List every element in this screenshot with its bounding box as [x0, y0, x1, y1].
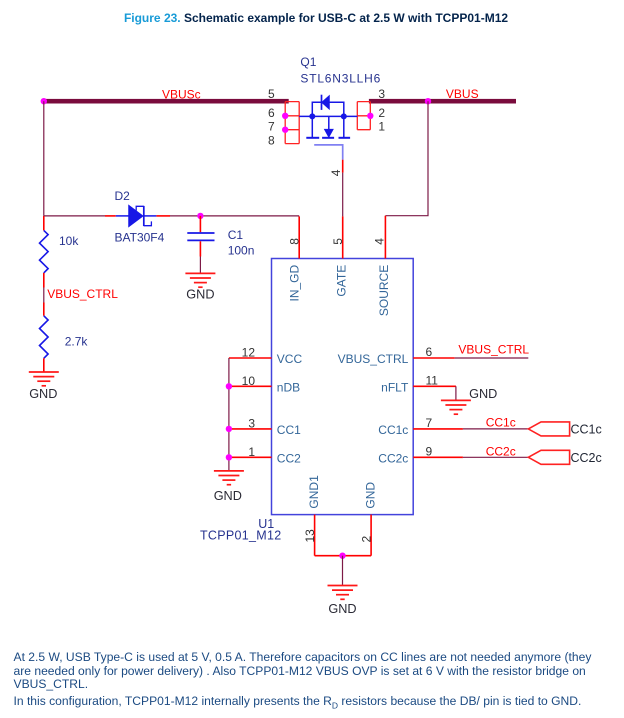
U1 pin 9 stub (CC2c)	[413, 456, 463, 458]
node Q1 pin7	[282, 127, 288, 133]
svg-text:CC2c: CC2c	[571, 451, 602, 465]
wire C1 to GND	[199, 257, 201, 273]
node nDB junction	[226, 383, 232, 389]
svg-text:100n: 100n	[228, 244, 255, 258]
svg-text:STL6N3LLH6: STL6N3LLH6	[300, 72, 381, 86]
wire VBUSc to D2 row	[43, 101, 45, 216]
svg-text:GND1: GND1	[307, 475, 321, 509]
wire VBUS_CTRL right	[455, 357, 529, 359]
Q1 gate pin stub	[342, 160, 344, 173]
svg-text:GATE: GATE	[334, 265, 348, 297]
transistor Q1 MOSFET symbol	[299, 95, 357, 138]
wire GND drop	[342, 556, 344, 585]
node CC2 junction	[226, 454, 232, 460]
svg-text:8: 8	[268, 134, 275, 148]
node GND junction	[339, 553, 345, 559]
Q1 source junction dot	[341, 113, 347, 119]
svg-text:VBUS_CTRL: VBUS_CTRL	[338, 352, 409, 366]
diode D2	[116, 206, 157, 226]
svg-text:GND: GND	[214, 489, 242, 503]
node C1 junction	[197, 213, 203, 219]
svg-text:12: 12	[242, 346, 256, 360]
node VBUS junction	[425, 98, 431, 104]
svg-text:CC1c: CC1c	[378, 423, 408, 437]
U1 pin 11 stub (nFLT)	[413, 385, 456, 387]
Q1 drain junction dot	[309, 113, 315, 119]
node CC1 junction	[226, 426, 232, 432]
wire D2 row right	[170, 215, 299, 217]
svg-text:7: 7	[426, 416, 433, 430]
wire D2 cathode stub	[156, 215, 170, 217]
svg-text:CC2c: CC2c	[486, 444, 516, 458]
Q1 left pin box (pins 5-8)	[285, 102, 299, 144]
svg-text:5: 5	[268, 87, 275, 101]
U1 pin 6 stub (VBUS_CTRL)	[413, 357, 455, 359]
svg-text:5: 5	[331, 238, 345, 245]
wire CC1c	[463, 428, 528, 430]
svg-text:9: 9	[426, 444, 433, 458]
svg-text:6: 6	[426, 345, 433, 359]
wire D2 row left	[44, 215, 105, 217]
ground C1	[185, 273, 215, 287]
resistor R 10k	[40, 216, 49, 288]
U1 pin 4 stub (SOURCE)	[384, 216, 386, 259]
Q1 gate lead	[314, 145, 343, 160]
capacitor C1	[187, 216, 214, 257]
figure title	[4, 11, 624, 25]
wire VBUS_CTRL mid	[43, 288, 45, 303]
ground nFLT	[441, 400, 471, 414]
IC U1 body	[272, 259, 414, 515]
wire CC2c	[463, 456, 528, 458]
bus VBUSc (thick)	[42, 99, 289, 104]
U1 pin 2 stub (GND)	[370, 515, 372, 556]
svg-text:CC2: CC2	[277, 451, 301, 465]
svg-text:GND: GND	[328, 602, 356, 616]
svg-text:BAT30F4: BAT30F4	[115, 231, 165, 245]
svg-text:7: 7	[268, 120, 275, 134]
svg-text:GND: GND	[29, 387, 57, 401]
svg-text:CC1c: CC1c	[486, 416, 516, 430]
svg-text:VBUS: VBUS	[446, 87, 479, 101]
svg-text:nDB: nDB	[277, 380, 300, 394]
svg-text:6: 6	[268, 106, 275, 120]
U1 pin 1 stub (CC2)	[229, 456, 272, 458]
svg-text:SOURCE: SOURCE	[377, 265, 391, 316]
wire nFLT to GND	[455, 386, 457, 400]
svg-text:3: 3	[378, 87, 385, 101]
U1 pin 3 stub (CC1)	[229, 428, 272, 430]
svg-text:CC2c: CC2c	[378, 451, 408, 465]
bus VBUS (thick)	[369, 99, 516, 104]
svg-text:1: 1	[378, 120, 385, 134]
svg-text:3: 3	[248, 417, 255, 431]
connector CC1c	[528, 422, 569, 436]
svg-text:13: 13	[303, 529, 317, 543]
ground left rail	[214, 471, 244, 485]
svg-text:8: 8	[288, 238, 302, 245]
svg-text:2.7k: 2.7k	[65, 335, 89, 349]
svg-text:C1: C1	[228, 228, 244, 242]
svg-text:GND: GND	[186, 287, 214, 301]
svg-text:2: 2	[378, 106, 385, 120]
svg-text:GND: GND	[469, 387, 497, 401]
svg-text:IN_GD: IN_GD	[288, 264, 302, 301]
svg-text:CC1c: CC1c	[571, 423, 602, 437]
svg-text:CC1: CC1	[277, 423, 301, 437]
svg-text:10: 10	[242, 374, 256, 388]
resistor R 2.7k	[40, 303, 49, 372]
U1 pin 8 stub (IN_GD)	[298, 216, 300, 258]
node Q1 pin6	[282, 113, 288, 119]
U1 pin 5 stub (GATE)	[342, 216, 344, 258]
svg-text:4: 4	[373, 238, 387, 245]
svg-text:VCC: VCC	[277, 352, 303, 366]
paragraph 1	[14, 651, 624, 691]
svg-text:VBUSc: VBUSc	[162, 88, 201, 102]
connector CC2c	[528, 450, 569, 464]
svg-text:Q1: Q1	[300, 55, 316, 69]
ground lower-left	[29, 372, 59, 386]
wire VBUS to SOURCE	[385, 101, 428, 216]
svg-text:11: 11	[426, 373, 439, 387]
svg-text:10k: 10k	[59, 234, 79, 248]
U1 pin 10 stub (nDB)	[229, 385, 272, 387]
wire GND join	[315, 555, 372, 557]
svg-text:GND: GND	[363, 482, 377, 509]
Q1 right pin box (pins 1-3)	[357, 102, 370, 130]
svg-text:2: 2	[359, 536, 373, 543]
svg-text:1: 1	[248, 445, 255, 459]
svg-text:TCPP01_M12: TCPP01_M12	[200, 529, 282, 543]
U1 pin 13 stub (GND1)	[314, 515, 316, 556]
svg-text:D2: D2	[115, 189, 131, 203]
paragraph 2	[14, 695, 624, 713]
node VBUSc junction	[41, 98, 47, 104]
ground bottom	[328, 586, 358, 600]
svg-text:VBUS_CTRL: VBUS_CTRL	[47, 287, 118, 301]
svg-text:VBUS_CTRL: VBUS_CTRL	[458, 343, 529, 357]
wire left rail to GND	[228, 358, 230, 471]
U1 pin 12 stub (VCC)	[229, 357, 272, 359]
wire gate net	[342, 173, 344, 217]
svg-text:nFLT: nFLT	[381, 380, 409, 394]
U1 pin 7 stub (CC1c)	[413, 428, 463, 430]
wire D2 anode stub	[105, 215, 116, 217]
node Q1 pin2	[367, 113, 373, 119]
svg-text:4: 4	[329, 169, 343, 176]
